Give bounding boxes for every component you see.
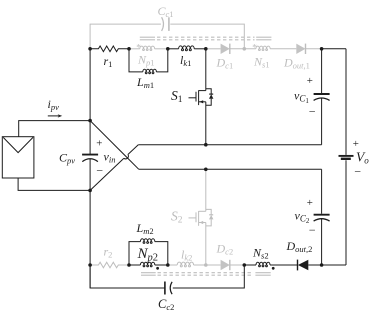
svg-text:Np1: Np1 bbox=[137, 53, 155, 68]
svg-text:Ns2: Ns2 bbox=[252, 246, 269, 261]
polarity dot Np2 bbox=[156, 267, 159, 270]
svg-text:−: − bbox=[308, 223, 316, 237]
wire PV positive lead bbox=[19, 121, 90, 137]
svg-text:−: − bbox=[308, 104, 316, 118]
wire left bus lower bbox=[89, 159, 91, 288]
wire input cross diagonal lower-left to upper rail (with hop) bbox=[90, 145, 138, 191]
junction clamp node top (grey) bbox=[243, 47, 247, 51]
wire Np1 segment (grey) bbox=[129, 48, 168, 50]
svg-text:Ns1: Ns1 bbox=[253, 55, 270, 70]
capacitor Cc2 bbox=[165, 282, 172, 295]
junction lk2/Dc2/S2 (grey) bbox=[204, 263, 208, 267]
diode Dout2 (points left) bbox=[298, 260, 309, 271]
transformer T1 core dashed coupling lines (grey) bbox=[157, 37, 255, 40]
wire PV negative lead bbox=[18, 178, 90, 190]
polarity dot Ns2 bbox=[272, 267, 275, 270]
junction dot Np2 box/lk2 bbox=[166, 263, 170, 267]
diode Dc2 (grey) bbox=[221, 260, 230, 270]
wire lower mid rail bbox=[139, 168, 322, 170]
svg-text:+: + bbox=[352, 138, 359, 150]
svg-text:Lm2: Lm2 bbox=[136, 221, 154, 236]
battery Vo bbox=[339, 156, 354, 159]
capacitor Cc1 (grey) bbox=[162, 17, 169, 31]
svg-text:Cpv: Cpv bbox=[59, 151, 75, 166]
svg-text:lk2: lk2 bbox=[181, 248, 192, 263]
wire Dc1 to clamp node (grey) bbox=[230, 48, 256, 50]
svg-text:Dc1: Dc1 bbox=[216, 56, 234, 71]
junction dot bus/topwire bbox=[88, 47, 92, 51]
svg-text:+: + bbox=[306, 75, 313, 87]
wire clamp branch Cc2 bbox=[90, 265, 244, 288]
winding lk1 bbox=[168, 46, 206, 51]
inductor Lm1 parallel branch bbox=[129, 49, 168, 74]
junction dot r2/Np2 box bbox=[127, 263, 131, 267]
junction dot lk1/Dc1/S1 bbox=[204, 47, 208, 51]
junction dot Dc2/Ns2/Cc2 bbox=[243, 263, 247, 267]
svg-text:ipv: ipv bbox=[48, 97, 60, 112]
svg-text:−: − bbox=[354, 164, 362, 178]
svg-text:−: − bbox=[96, 164, 104, 178]
svg-text:Np2: Np2 bbox=[137, 246, 159, 264]
capacitor Cpv bbox=[82, 155, 98, 162]
wire S1drain to Dc1 (grey) bbox=[206, 48, 221, 50]
wire upper mid rail bbox=[138, 144, 321, 146]
svg-text:vin: vin bbox=[104, 150, 116, 165]
svg-text:S1: S1 bbox=[171, 88, 183, 105]
svg-text:lk1: lk1 bbox=[180, 53, 191, 68]
wire right bus lower bbox=[345, 160, 347, 265]
resistor r1 bbox=[90, 46, 129, 52]
wire lk2 leads (grey) bbox=[168, 264, 206, 266]
winding Np1 (grey) bbox=[140, 46, 155, 50]
PV panel symbol bbox=[2, 137, 34, 178]
wire input cross diagonal upper-left to lower rail bbox=[90, 121, 139, 170]
junction dot PV-/bus bbox=[88, 189, 92, 193]
svg-text:vC1: vC1 bbox=[294, 88, 309, 105]
junction dot r1/Np1/Lm1 bbox=[127, 47, 131, 51]
diode Dc1 (grey) bbox=[221, 44, 230, 54]
junction dot Dout1/vC1/bus bbox=[320, 47, 324, 51]
svg-text:r2: r2 bbox=[104, 245, 113, 260]
winding Ns1 (grey) bbox=[256, 46, 270, 50]
svg-text:Dout,1: Dout,1 bbox=[283, 56, 310, 71]
inductor Lm2 / winding Np2 parallel box bbox=[129, 239, 168, 265]
svg-text:r1: r1 bbox=[104, 54, 113, 69]
junction dot Dout2/vC2/bus bbox=[320, 263, 324, 267]
junction dot PV+/bus bbox=[88, 119, 92, 123]
svg-text:Cc1: Cc1 bbox=[158, 4, 174, 19]
junction dot S1 source on upper rail bbox=[204, 143, 208, 147]
wire left bus upper bbox=[89, 49, 91, 155]
svg-text:S2: S2 bbox=[171, 209, 183, 226]
transformer T1 core solid lines (grey) bbox=[140, 37, 272, 40]
transformer T2 core dashed coupling lines (grey) bbox=[158, 273, 254, 276]
wire S2 junction to Dc2 (grey) bbox=[206, 264, 221, 266]
wire Dout1 to output node (grey) bbox=[306, 48, 322, 50]
transistor S2 (grey MOSFET with body diode) bbox=[189, 169, 214, 265]
wire clamp branch Cc1 (grey) bbox=[90, 24, 244, 49]
winding lk2 (grey) bbox=[177, 262, 193, 267]
svg-text:Dc2: Dc2 bbox=[216, 242, 234, 257]
junction dot Np1/lk1 bbox=[166, 47, 170, 51]
svg-text:Vo: Vo bbox=[356, 150, 369, 166]
capacitor vC1 branch bbox=[314, 49, 330, 145]
wire Ns1 to Dout1 (grey) bbox=[270, 48, 296, 50]
current arrow ipv bbox=[48, 114, 62, 117]
svg-text:Lm1: Lm1 bbox=[136, 75, 154, 90]
svg-text:+: + bbox=[96, 138, 103, 150]
wire Dout2 to right bus (bottom) bbox=[308, 264, 346, 266]
junction dot bus/r2/Cc2 bbox=[88, 263, 92, 267]
junction dot S2 drain on lower rail bbox=[204, 168, 208, 172]
winding Ns2 bbox=[244, 262, 297, 267]
transformer T2 core solid lines bbox=[141, 273, 271, 276]
wire output node to right bus (top) bbox=[322, 48, 346, 50]
svg-text:+: + bbox=[306, 197, 313, 209]
capacitor vC2 branch bbox=[314, 169, 330, 265]
svg-text:*: * bbox=[252, 43, 257, 53]
winding Np2 on main wire bbox=[129, 262, 168, 267]
diode Dout1 (grey) bbox=[296, 44, 305, 54]
svg-text:Dout,2: Dout,2 bbox=[286, 239, 313, 254]
wire Dc2 to Ns2 node (grey) bbox=[230, 264, 245, 266]
svg-text:Cc2: Cc2 bbox=[158, 297, 174, 312]
wire right bus upper bbox=[345, 49, 347, 155]
transistor S1 (MOSFET with body diode) bbox=[189, 49, 214, 145]
wire r2 segment (grey) bbox=[90, 262, 129, 268]
